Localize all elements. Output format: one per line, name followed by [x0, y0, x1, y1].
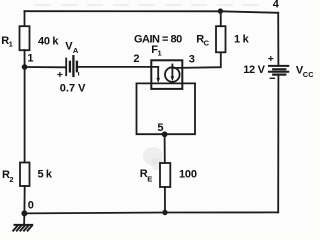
svg-text:4: 4: [273, 0, 280, 10]
svg-text:0.7 V: 0.7 V: [60, 83, 86, 95]
wire F1 to node 3 to RC: [172, 52, 221, 68]
svg-text:3: 3: [189, 53, 195, 65]
scan smudge near RE: [143, 147, 163, 165]
wire top rail node 4: [25, 11, 279, 13]
scan artifact faint top line: [35, 4, 262, 6]
node 5 junction dot: [162, 131, 168, 137]
svg-text:40 k: 40 k: [38, 35, 59, 47]
wire bottom rail node 0: [24, 212, 278, 213]
node 0 junction dot: [21, 210, 27, 216]
wire node 5 to RE: [164, 134, 166, 163]
node 1 junction dot: [22, 64, 28, 70]
svg-text:GAIN = 80: GAIN = 80: [134, 33, 182, 45]
wire left rail node 1 to R2: [24, 67, 26, 163]
polarity plus of VCC: [269, 57, 273, 61]
F1 controlling branch arrow: [156, 67, 160, 83]
svg-text:0: 0: [28, 200, 34, 212]
svg-text:12 V: 12 V: [243, 64, 265, 76]
wire F1 lower loop to node 5: [137, 82, 196, 84]
polarity plus of VA: [58, 73, 62, 77]
wire R2 bottom stub: [23, 186, 25, 213]
svg-text:E: E: [147, 175, 152, 184]
svg-text:1: 1: [27, 53, 33, 65]
svg-text:C: C: [204, 39, 210, 48]
F1 source arrow: [171, 65, 175, 82]
polarity minus of VCC: [270, 77, 274, 79]
resistor R2: [20, 163, 30, 187]
svg-text:1: 1: [158, 49, 162, 58]
wire RC top stub: [220, 11, 222, 26]
battery VA: [66, 56, 77, 76]
svg-text:CC: CC: [303, 70, 313, 79]
svg-text:2: 2: [9, 175, 13, 184]
wire node 1 to battery VA: [25, 66, 66, 68]
resistor RE: [160, 163, 170, 187]
op-amp box F1 (CCCS body): [151, 60, 182, 89]
polarity minus tick of VA: [78, 73, 80, 75]
svg-text:1 k: 1 k: [234, 34, 250, 46]
junction dot top rail at RC: [218, 8, 223, 13]
wire VCC bottom to bottom rail: [277, 75, 279, 213]
resistor RC: [216, 26, 226, 52]
svg-text:100: 100: [179, 168, 197, 180]
wire ground stub: [23, 213, 25, 224]
svg-text:5 k: 5 k: [38, 168, 53, 180]
wire R1 top stub: [24, 11, 26, 26]
battery VCC: [269, 66, 288, 75]
wire R1 bottom stub: [24, 50, 26, 67]
wire VCC top stub: [277, 13, 279, 65]
svg-text:5: 5: [157, 122, 163, 134]
svg-text:A: A: [73, 46, 79, 55]
ground: [13, 225, 32, 231]
F1 dependent source circle: [165, 67, 180, 82]
svg-text:2: 2: [133, 53, 139, 65]
wire battery VA to node 2 / F1: [77, 66, 158, 68]
resistor R1: [20, 26, 30, 50]
wire RE bottom stub: [164, 187, 166, 213]
svg-text:1: 1: [9, 39, 13, 48]
junction dot RE bottom: [162, 210, 167, 215]
